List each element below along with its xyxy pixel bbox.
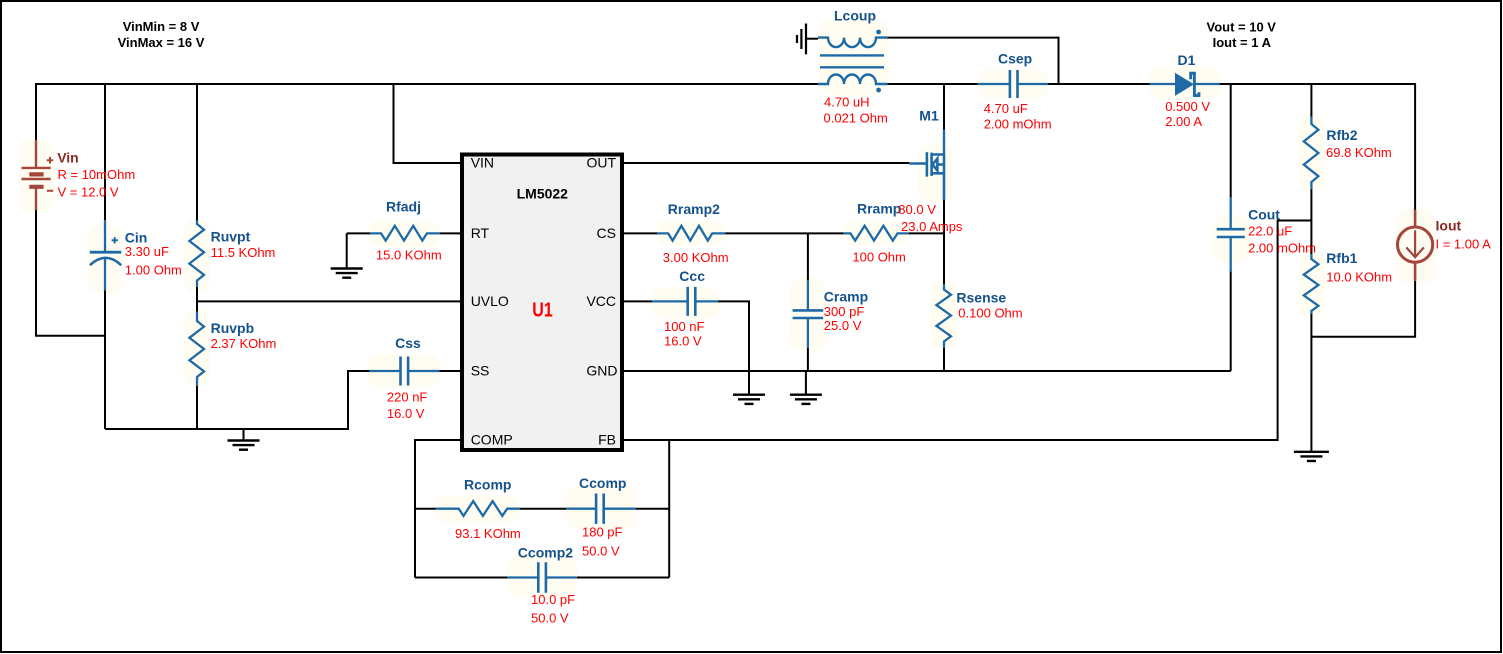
wire top input rail [36, 84, 819, 140]
svg-text:100 Ohm: 100 Ohm [852, 250, 905, 265]
svg-text:Css: Css [395, 335, 421, 351]
svg-text:180 pF: 180 pF [582, 525, 623, 540]
svg-text:300 pF: 300 pF [824, 304, 865, 319]
svg-text:RT: RT [471, 225, 490, 241]
svg-text:VinMin = 8 V: VinMin = 8 V [123, 19, 200, 34]
svg-text:2.00 mOhm: 2.00 mOhm [1248, 241, 1316, 256]
svg-text:COMP: COMP [471, 432, 513, 448]
ground at feedback divider [1294, 451, 1329, 453]
svg-text:16.0 V: 16.0 V [664, 334, 702, 349]
svg-text:16.0 V: 16.0 V [387, 406, 425, 421]
svg-text:OUT: OUT [586, 155, 616, 171]
transistor M1 (NMOS) [909, 130, 944, 200]
resistor Rfb2 [1304, 117, 1319, 190]
svg-text:FB: FB [598, 432, 616, 448]
svg-text:3.00 KOhm: 3.00 KOhm [663, 250, 729, 265]
wire GND rail [624, 370, 1231, 372]
svg-text:2.00 A: 2.00 A [1165, 114, 1202, 129]
svg-text:LM5022: LM5022 [517, 185, 569, 201]
wire Cin branch vertical [104, 84, 106, 429]
svg-text:15.0 KOhm: 15.0 KOhm [376, 248, 442, 263]
svg-text:I = 1.00 A: I = 1.00 A [1436, 237, 1492, 252]
wire OUT pin to M1 gate [624, 162, 909, 164]
svg-text:Iout: Iout [1436, 217, 1462, 233]
wire Ccomp2 branch leads [415, 577, 669, 579]
svg-text:SS: SS [471, 363, 490, 379]
svg-text:V = 12.0 V: V = 12.0 V [58, 185, 119, 200]
svg-text:10.0 KOhm: 10.0 KOhm [1326, 270, 1392, 285]
svg-text:M1: M1 [919, 108, 939, 124]
op-amp U1 body (LM5022 controller) [462, 155, 622, 451]
wire M1 drain to switch node [943, 84, 945, 130]
svg-text:10.0 pF: 10.0 pF [531, 592, 575, 607]
svg-text:Rcomp: Rcomp [464, 477, 511, 493]
svg-text:4.70 uH: 4.70 uH [824, 94, 870, 109]
svg-text:0.500 V: 0.500 V [1165, 99, 1210, 114]
wire UVLO divider branch vertical [196, 84, 198, 429]
svg-text:Vin: Vin [57, 150, 79, 166]
wire Vin negative lead to input return [36, 210, 105, 336]
wire RT pin leads [347, 232, 460, 234]
wire VIN pin from input rail [394, 84, 461, 163]
wire M1 source to Rsense to ground rail [943, 200, 945, 371]
svg-text:Lcoup: Lcoup [834, 8, 876, 24]
inductor Lcoup top winding [818, 38, 887, 47]
svg-text:100 nF: 100 nF [664, 319, 705, 334]
wire compensation network right vertical [668, 440, 670, 578]
resistor Rcomp [436, 501, 520, 516]
capacitor Cramp [807, 280, 809, 348]
svg-text:23.0 Amps: 23.0 Amps [901, 219, 963, 234]
resistor Ruvpt [189, 221, 204, 287]
wire Iout return to divider ground [1311, 281, 1415, 337]
wire FB pin to feedback divider [624, 221, 1311, 441]
ground at Ccc return [748, 371, 750, 395]
svg-text:VinMax = 16 V: VinMax = 16 V [118, 35, 205, 50]
ground at Cramp return [805, 371, 807, 395]
capacitor Cin (polarized) [90, 220, 122, 290]
capacitor Ccc [652, 300, 718, 302]
wire COMP pin down to compensation network [415, 440, 460, 578]
current source Iout [1398, 210, 1433, 281]
wire Rcomp-Ccomp branch leads [415, 508, 669, 510]
svg-text:Rfadj: Rfadj [386, 199, 421, 215]
capacitor Ccomp [566, 508, 636, 510]
svg-text:220 nF: 220 nF [387, 390, 428, 405]
resistor Rsense [936, 284, 951, 348]
resistor Rramp2 [657, 226, 726, 241]
svg-text:4.70 uF: 4.70 uF [984, 101, 1028, 116]
svg-text:Rfb2: Rfb2 [1326, 127, 1357, 143]
svg-text:22.0 uF: 22.0 uF [1248, 223, 1292, 238]
svg-text:1.00 Ohm: 1.00 Ohm [125, 262, 182, 277]
svg-text:Ccomp: Ccomp [579, 475, 626, 491]
svg-text:Ruvpt: Ruvpt [211, 229, 251, 245]
wire UVLO node to U1 [197, 300, 460, 302]
capacitor Ccomp2 [507, 576, 577, 578]
resistor Rramp [844, 226, 909, 241]
svg-text:Rramp: Rramp [857, 201, 901, 217]
svg-text:0.021 Ohm: 0.021 Ohm [824, 110, 888, 125]
svg-text:GND: GND [586, 363, 617, 379]
svg-text:Csep: Csep [998, 50, 1032, 66]
svg-text:Cramp: Cramp [824, 289, 868, 305]
ground at bottom-left rail [243, 429, 245, 440]
svg-text:80.0 V: 80.0 V [898, 202, 936, 217]
ground at Lcoup top winding (rotated) [797, 24, 806, 55]
wire switch node rail to diode and output [887, 84, 1415, 210]
svg-text:Ruvpb: Ruvpb [211, 320, 255, 336]
svg-text:Rramp2: Rramp2 [668, 201, 720, 217]
svg-text:U1: U1 [532, 300, 553, 322]
voltage source Vin (battery) [22, 140, 54, 210]
svg-text:Rfb1: Rfb1 [1326, 250, 1357, 266]
svg-text:Ccc: Ccc [679, 268, 705, 284]
inductor Lcoup core [820, 55, 884, 67]
svg-text:Rsense: Rsense [956, 289, 1006, 305]
svg-text:UVLO: UVLO [471, 293, 509, 309]
capacitor Css [369, 370, 439, 372]
resistor Rfadj [370, 226, 440, 241]
wire feedback divider vertical [1310, 84, 1312, 452]
diode D1 (schottky) [1150, 83, 1220, 85]
wire Cramp branch vertical [807, 233, 809, 371]
capacitor Cout [1230, 198, 1232, 271]
wire bottom-left ground rail and SS return [105, 371, 460, 429]
wire CS pin to ramp network [624, 232, 944, 234]
capacitor Csep [978, 83, 1048, 85]
svg-text:Cout: Cout [1248, 207, 1280, 223]
svg-text:50.0 V: 50.0 V [582, 544, 620, 559]
svg-text:D1: D1 [1178, 52, 1196, 68]
svg-text:VIN: VIN [471, 155, 494, 171]
svg-text:R = 10mOhm: R = 10mOhm [58, 167, 136, 182]
resistor Ruvpb [189, 312, 204, 386]
svg-text:93.1 KOhm: 93.1 KOhm [455, 526, 521, 541]
svg-text:Vout = 10 V: Vout = 10 V [1207, 20, 1277, 35]
wire Lcoup top winding to Csep top route [887, 38, 1058, 84]
svg-text:2.00 mOhm: 2.00 mOhm [984, 116, 1052, 131]
phase dot top winding [876, 30, 881, 35]
phase dot bottom winding [876, 88, 881, 93]
resistor Rfb1 [1304, 254, 1319, 314]
inductor Lcoup bottom winding [818, 75, 887, 85]
svg-text:Iout = 1 A: Iout = 1 A [1213, 35, 1272, 50]
svg-text:0.100 Ohm: 0.100 Ohm [958, 305, 1022, 320]
svg-text:CS: CS [597, 225, 616, 241]
svg-text:11.5 KOhm: 11.5 KOhm [211, 245, 276, 260]
svg-text:Ccomp2: Ccomp2 [518, 545, 573, 561]
svg-text:2.37 KOhm: 2.37 KOhm [211, 336, 277, 351]
svg-text:VCC: VCC [586, 293, 616, 309]
wire Cout branch vertical [1230, 84, 1232, 371]
svg-text:25.0 V: 25.0 V [824, 318, 862, 333]
svg-text:3.30 uF: 3.30 uF [125, 244, 169, 259]
ground at Rfadj [346, 233, 348, 268]
svg-text:50.0 V: 50.0 V [531, 611, 569, 626]
wire VCC pin leads and Ccc return [624, 301, 749, 371]
svg-text:69.8 KOhm: 69.8 KOhm [1326, 145, 1392, 160]
